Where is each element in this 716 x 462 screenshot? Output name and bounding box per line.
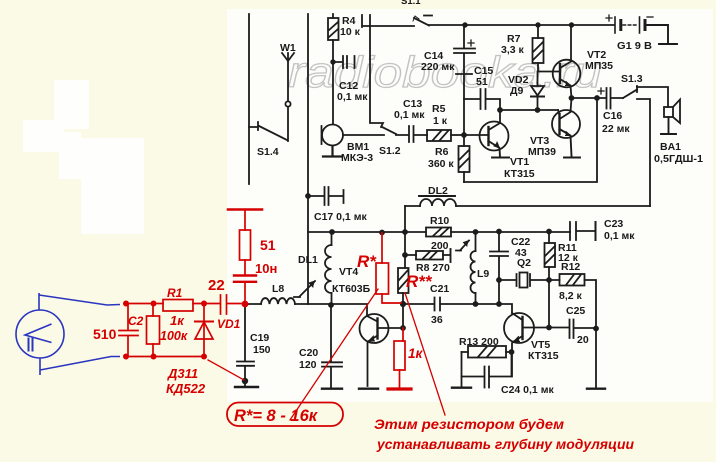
wire VT1 collector node [500,109,558,111]
wire top supply rail [362,15,414,27]
inductor DL2 [405,196,456,206]
resistor R10 [426,228,451,237]
svg-text:S1.3: S1.3 [621,73,643,85]
svg-text:0,1 мк: 0,1 мк [394,109,425,121]
svg-text:VT1: VT1 [510,156,529,168]
svg-text:DL2: DL2 [428,185,448,197]
switch S1.4 [249,122,287,140]
capacitor C2 [119,304,138,357]
svg-text:C25: C25 [566,305,585,317]
resistor R1 [163,300,193,312]
svg-text:КТ315: КТ315 [528,350,559,362]
wire tank line [245,303,367,305]
wire R6 to VT2-VT3 node [464,98,597,182]
inductor L9 [471,232,476,304]
svg-text:S1.1: S1.1 [401,0,421,7]
wire supply rail right [429,24,614,26]
svg-text:МП35: МП35 [585,60,613,72]
crystal Q2 [499,273,549,288]
resistor R6 [459,135,470,182]
antenna W1 [282,53,294,141]
resistor R8 [405,249,451,262]
inductor DL1 [325,232,332,305]
svg-text:22: 22 [208,277,225,294]
wire mic bottom lead [40,357,120,376]
switch S1.3 [623,86,668,206]
svg-text:КД522: КД522 [166,381,206,396]
svg-text:100к: 100к [160,329,188,343]
transistor VT5 [504,313,549,377]
red hand-drawn overlay [119,210,445,427]
svg-text:DL1: DL1 [298,254,318,266]
svg-text:BA1: BA1 [660,141,681,153]
wire tank to VT5 [475,304,512,313]
capacitor C22 [490,232,508,281]
resistor R7 [533,25,544,71]
svg-text:51: 51 [476,76,488,88]
resistor R13 [462,346,512,358]
red labels [93,237,635,452]
capacitor C12 [333,56,355,68]
trimmer arrow [456,241,469,251]
svg-text:0,5ГДШ-1: 0,5ГДШ-1 [654,153,703,165]
callout ellipse R* value [227,403,343,427]
wire left bus stub [248,14,250,184]
resistor R11 [545,232,556,281]
svg-text:200: 200 [431,240,449,252]
wire S1.2 feed [370,15,383,127]
resistor R** body [398,268,409,328]
resistor R5 [427,130,464,141]
svg-text:W1: W1 [280,42,296,54]
wire R11 to VT5 base [548,280,550,328]
wire C22 to tank [498,280,500,304]
wire red top rail [126,303,244,305]
svg-text:VD1: VD1 [217,317,241,331]
capacitor C23 [570,222,596,240]
svg-text:R10: R10 [430,215,449,227]
inductor L8 [261,298,295,304]
capacitor C17 [308,187,344,205]
svg-text:C21: C21 [430,283,449,295]
svg-text:C16: C16 [603,110,622,122]
wire pointer to R** [405,293,445,415]
transistor VT2 [553,25,581,98]
red junction dots [123,301,248,360]
capacitor C25 [549,320,596,339]
capacitor C14 [454,25,475,135]
black component labels [250,0,703,396]
transistor VT1 [464,110,509,158]
svg-text:22 мк: 22 мк [602,123,630,135]
transistor VT3 [552,98,580,158]
svg-text:R*: R* [357,252,377,271]
svg-text:G1 9 В: G1 9 В [617,40,652,52]
svg-text:R5: R5 [432,103,446,115]
svg-text:10 к: 10 к [340,26,361,38]
svg-text:36: 36 [431,314,443,326]
svg-text:3,3 к: 3,3 к [501,44,525,56]
capacitor C24 [462,352,512,388]
svg-text:C17 0,1 мк: C17 0,1 мк [314,211,367,223]
svg-text:R13 200: R13 200 [459,336,499,348]
speaker BA1 [661,100,680,135]
microphone body [16,310,64,358]
capacitor C16 [572,88,623,109]
svg-text:220 мк: 220 мк [421,61,455,73]
diode VD1 [195,304,213,357]
svg-text:Этим резистором будем: Этим резистором будем [374,417,564,432]
resistor R12 [549,274,596,329]
capacitor 22 [221,295,227,314]
svg-text:C20: C20 [299,347,318,359]
svg-text:L8: L8 [272,283,284,295]
svg-text:С23: С23 [604,218,623,230]
svg-text:Д311: Д311 [167,366,198,381]
resistor 51 and capacitor 10н chain [228,210,262,304]
capacitor C13 [396,126,427,142]
svg-text:1 к: 1 к [433,115,448,127]
microphone element symbol [25,324,52,343]
switch S1.1 [414,18,429,26]
svg-text:360 к: 360 к [428,158,454,170]
svg-text:20: 20 [577,334,589,346]
resistor R4 [328,14,339,62]
wire red bottom rail [126,356,205,358]
svg-text:C19: C19 [250,332,269,344]
svg-text:R1: R1 [167,286,183,300]
svg-text:R**: R** [406,272,433,291]
svg-text:0,1 мк: 0,1 мк [604,230,635,242]
capacitor C20 [322,305,342,389]
svg-text:Д9: Д9 [510,85,523,97]
svg-text:устанавливать глубину модуляци: устанавливать глубину модуляции [376,437,635,452]
svg-text:R6: R6 [435,146,449,158]
wire main left bus [307,14,309,304]
blue microphone group [16,293,120,375]
wire R12-C25 ground leg [587,329,605,389]
svg-text:VT4: VT4 [339,266,358,278]
svg-text:120: 120 [299,359,317,371]
wire pointer to R* [290,289,378,420]
svg-text:S1.2: S1.2 [379,145,401,157]
svg-text:L9: L9 [477,268,489,280]
svg-text:1к: 1к [170,313,185,328]
svg-text:1к: 1к [408,346,424,361]
svg-text:0,1 мк: 0,1 мк [337,91,368,103]
wire mic top lead [39,293,120,310]
svg-text:R*= 8 - 16к: R*= 8 - 16к [234,407,319,425]
resistor 100к [147,304,160,357]
wire DL2 output to S1.3 [456,205,650,207]
capacitor C15 [464,89,500,110]
wire R8 node vertical [404,232,406,268]
wire R7 to VT2 base [538,71,559,73]
svg-text:51: 51 [260,237,276,253]
capacitor C19 [235,304,258,387]
svg-text:МП39: МП39 [528,146,556,158]
svg-text:R12: R12 [561,261,580,273]
wire R13 ground leg [452,352,471,388]
wire mic bias [332,62,334,124]
svg-text:10н: 10н [255,261,277,276]
svg-text:150: 150 [253,344,271,356]
wire R10 to C23 [451,231,570,233]
svg-text:8,2 к: 8,2 к [559,290,583,302]
wire pointer to VD1 type [208,360,244,380]
svg-text:C2: C2 [128,314,144,328]
battery G1 [606,15,677,44]
switch S1.2 [382,127,396,134]
resistor R* body [376,233,401,303]
wire DL2 tap down [404,206,406,232]
svg-text:510: 510 [93,326,117,342]
svg-text:КТ603Б: КТ603Б [332,283,371,295]
svg-text:S1.4: S1.4 [257,146,279,158]
diode VD2 [531,72,544,111]
svg-text:МКЭ-3: МКЭ-3 [341,152,373,164]
transistor VT4 [359,305,403,389]
microphone BM1 [322,125,385,157]
svg-text:КТ315: КТ315 [504,168,535,180]
resistor 1к emitter [388,328,411,389]
capacitor C21 [403,298,475,311]
trimmer arrow L8 [294,281,315,297]
wire oscillator top [308,231,426,233]
svg-text:C24 0,1 мк: C24 0,1 мк [501,384,554,396]
svg-text:Q2: Q2 [517,257,531,269]
